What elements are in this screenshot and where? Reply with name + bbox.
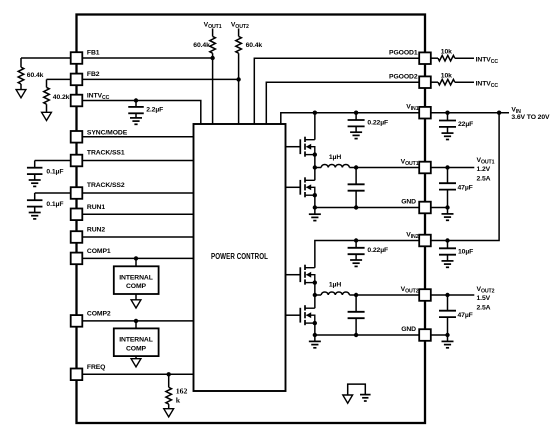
svg-text:k: k: [176, 395, 181, 404]
node ground rail 1 at cap: [354, 205, 358, 209]
capacitor 47uF (VOUT2): [447, 295, 449, 311]
ground earth (2.2uF): [130, 117, 142, 119]
wire FREQ: [71, 373, 194, 375]
svg-text:60.4k: 60.4k: [193, 42, 210, 49]
transistor Q3 (top NMOS ch2): [299, 267, 301, 282]
ground earth (0.22uF ch2): [350, 259, 362, 261]
ground signal (tie): [343, 395, 353, 403]
wire VIN2 rail: [315, 241, 420, 268]
svg-text:2.2µF: 2.2µF: [146, 107, 163, 114]
wire Q2 source to ground rail 1: [314, 195, 316, 207]
block INTERNAL COMP 2: [114, 328, 159, 356]
svg-text:1.2V: 1.2V: [477, 166, 491, 173]
node VIN2 at 10uF: [445, 238, 449, 242]
wire Q4 drain to switch node 2: [314, 295, 316, 308]
capacitor 47uF (VOUT1): [447, 168, 449, 184]
wire Q3 source to switch node 2: [314, 283, 316, 295]
svg-text:COMP: COMP: [126, 345, 147, 352]
wire ground rail 1: [315, 207, 420, 209]
svg-text:1µH: 1µH: [329, 154, 341, 161]
wire COMP1: [71, 257, 194, 259]
wire Q2 drain to switch node 1: [314, 168, 316, 181]
pin INTVCC: [71, 95, 83, 107]
capacitor 10uF (VIN2 bypass): [447, 241, 449, 249]
node VIN2 at bypass cap: [354, 238, 358, 242]
ground signal (162k): [164, 409, 174, 417]
inductor 1uH (channel 1): [315, 167, 321, 169]
wire COMP2 to internal comp 2: [135, 321, 137, 329]
svg-text:GND: GND: [401, 326, 416, 333]
capacitor 22uF (VIN input): [447, 113, 449, 121]
wire gate drive Q1: [286, 146, 300, 148]
wire RUN1: [71, 213, 194, 215]
svg-text:10k: 10k: [441, 72, 452, 79]
resistor 60.4k (lower FB1 divider): [20, 58, 22, 67]
pin FB2: [71, 74, 83, 86]
svg-text:0.22µF: 0.22µF: [367, 247, 388, 254]
pin PGOOD2: [419, 76, 431, 88]
pin RUN1: [71, 209, 83, 221]
resistor 60.4k (upper FB1 divider): [210, 36, 216, 53]
pin COMP2: [71, 315, 83, 327]
wire PGOOD2: [266, 82, 419, 124]
node FB2 junction: [236, 77, 240, 81]
ground earth (rail 2): [314, 335, 316, 341]
wire gate drive Q4: [286, 314, 300, 316]
node FB1 junction: [210, 56, 214, 60]
svg-text:FREQ: FREQ: [87, 364, 105, 371]
svg-text:10µF: 10µF: [458, 249, 473, 256]
node GND1 outside: [445, 205, 449, 209]
node ground rail 2 at cap: [354, 333, 358, 337]
capacitor 2.2uF (INTVCC bypass): [135, 101, 137, 107]
pin TRACK/SS1: [71, 155, 83, 167]
block INTERNAL COMP 1: [114, 266, 159, 294]
ground signal (FB2 divider): [42, 112, 52, 120]
svg-text:POWER CONTROL: POWER CONTROL: [211, 252, 268, 261]
capacitor 0.22uF (VIN2 bypass): [355, 241, 357, 248]
pin VIN1: [419, 107, 431, 119]
ground earth (tie): [360, 394, 371, 396]
svg-text:3.6V TO 20V: 3.6V TO 20V: [511, 114, 550, 121]
svg-text:COMP2: COMP2: [87, 310, 111, 317]
ground earth (GND1 outside): [447, 208, 449, 214]
wire SYNC/MODE: [71, 136, 194, 138]
transistor Q2 (bottom NMOS ch1): [299, 180, 301, 195]
node switch node 2: [313, 293, 317, 297]
pin PGOOD1: [419, 52, 431, 64]
wire TRACK/SS2: [35, 192, 194, 194]
svg-text:0.1µF: 0.1µF: [46, 201, 63, 208]
wire FB2: [47, 78, 239, 80]
ground earth (10uF): [442, 260, 454, 262]
wire Q1 source to switch node 1: [314, 155, 316, 168]
capacitor 0.1uF (TRACK/SS2): [34, 193, 36, 200]
svg-text:47µF: 47µF: [458, 184, 473, 191]
svg-text:1.5V: 1.5V: [477, 295, 491, 302]
wire ground tie bracket: [348, 384, 366, 395]
ground earth (0.1uF SS1): [29, 179, 41, 181]
node VOUT1 junction: [354, 165, 358, 169]
svg-text:COMP1: COMP1: [87, 248, 111, 255]
wire internal comp 2 to ground: [135, 356, 137, 359]
ground earth (0.22uF ch1): [350, 131, 362, 133]
transistor Q4 (bottom NMOS ch2): [299, 308, 301, 323]
svg-text:INTERNAL: INTERNAL: [119, 274, 153, 281]
svg-text:RUN1: RUN1: [87, 204, 105, 211]
wire FB1: [21, 57, 213, 59]
pin GND: [419, 329, 431, 341]
capacitor 0.1uF (TRACK/SS1): [34, 161, 36, 168]
svg-text:2.5A: 2.5A: [477, 175, 491, 182]
wire COMP2: [71, 320, 194, 322]
resistor 60.4k (upper FB2 divider): [236, 36, 242, 53]
svg-text:47µF: 47µF: [458, 312, 473, 319]
wire R bottom to FB1 line: [212, 53, 214, 58]
svg-text:1µH: 1µH: [329, 282, 341, 289]
wire gate drive Q2: [286, 186, 300, 188]
wire VOUT1 output: [431, 167, 475, 169]
svg-text:22µF: 22µF: [458, 121, 473, 128]
node ground rail 1 at Q2: [313, 205, 317, 209]
wire GND1 outside: [431, 207, 450, 209]
wire VIN1 rail: [281, 113, 420, 124]
ground earth (GND2 outside): [447, 335, 449, 341]
pin GND: [419, 202, 431, 214]
node FREQ junction: [167, 372, 171, 376]
wire Q1 drain to VIN1: [314, 113, 316, 140]
ground signal (internal comp 2): [131, 359, 141, 367]
capacitor output ch1 (internal): [355, 168, 357, 185]
node ground rail 2 at Q4: [313, 333, 317, 337]
ground signal (internal comp 1): [131, 300, 141, 308]
svg-text:FB2: FB2: [87, 71, 100, 78]
pin VOUT1: [419, 162, 431, 174]
resistor 162k (FREQ set): [168, 374, 170, 387]
node VOUT1 at 47uF: [445, 165, 449, 169]
pin FREQ: [71, 369, 83, 381]
resistor 10k (PGOOD1 pullup): [431, 57, 439, 59]
pin TRACK/SS2: [71, 187, 83, 199]
wire VOUT1 to R top: [212, 29, 214, 37]
node VIN branch to VIN2: [497, 111, 501, 115]
wire INTVCC pin to power control: [82, 101, 201, 125]
IC outer boundary: [77, 15, 426, 424]
POWER CONTROL block U1: [194, 124, 286, 391]
svg-text:60.4k: 60.4k: [27, 72, 44, 79]
wire VOUT1 to pin: [356, 167, 419, 169]
wire GND2 outside: [431, 334, 450, 336]
transistor Q1 (top NMOS ch1): [299, 139, 301, 154]
wire FB1 junction down to power control: [212, 58, 214, 124]
ground signal (FB1 divider): [16, 90, 26, 98]
wire Q4 source to ground rail 2: [314, 323, 316, 335]
wire ground rail 2: [315, 334, 420, 336]
node COMP1 junction: [134, 256, 138, 260]
wire COMP1 to internal comp 1: [135, 258, 137, 266]
svg-text:2.5A: 2.5A: [477, 304, 491, 311]
pin SYNC/MODE: [71, 131, 83, 143]
svg-text:PGOOD1: PGOOD1: [389, 50, 418, 57]
svg-text:40.2k: 40.2k: [53, 94, 70, 101]
wire VOUT2 output: [431, 294, 475, 296]
wire FB2 junction down to power control: [238, 79, 240, 124]
wire internal comp 1 to ground: [135, 294, 137, 300]
svg-text:TRACK/SS2: TRACK/SS2: [87, 182, 125, 189]
pin FB1: [71, 52, 83, 64]
resistor 40.2k (lower FB2 divider): [46, 79, 48, 87]
node VIN1 at bypass cap: [354, 111, 358, 115]
wire R bottom to FB2 line: [238, 53, 240, 79]
ground earth (rail 1): [314, 208, 316, 214]
wire TRACK/SS1: [35, 160, 194, 162]
ground earth (0.1uF SS2): [29, 212, 41, 214]
node GND2 outside: [445, 333, 449, 337]
node VOUT2 at 47uF: [445, 293, 449, 297]
ground earth (22uF): [442, 132, 454, 134]
svg-text:FB1: FB1: [87, 49, 100, 56]
svg-text:PGOOD2: PGOOD2: [389, 74, 418, 81]
svg-text:GND: GND: [401, 198, 416, 205]
node VIN at 22uF: [445, 111, 449, 115]
wire VIN down to VIN2 rail: [431, 113, 500, 241]
svg-text:0.1µF: 0.1µF: [46, 169, 63, 176]
svg-text:162: 162: [176, 386, 188, 395]
wire VOUT2 to pin: [356, 294, 419, 296]
pin VOUT2: [419, 289, 431, 301]
node INTVCC bypass junction: [134, 98, 138, 102]
svg-text:COMP: COMP: [126, 283, 147, 290]
capacitor 0.22uF (VIN1 bypass): [355, 113, 357, 120]
pin RUN2: [71, 231, 83, 243]
svg-text:SYNC/MODE: SYNC/MODE: [87, 129, 128, 136]
pin VIN2: [419, 235, 431, 247]
wire RUN2: [71, 236, 194, 238]
wire VOUT2 to R top: [238, 29, 240, 37]
wire VIN input: [431, 112, 510, 114]
inductor 1uH (channel 2): [315, 294, 321, 296]
svg-text:10k: 10k: [441, 48, 452, 55]
node VOUT2 junction: [354, 293, 358, 297]
capacitor output ch2 (internal): [355, 295, 357, 312]
node COMP2 junction: [134, 319, 138, 323]
wire gate drive Q3: [286, 274, 300, 276]
pin COMP1: [71, 253, 83, 265]
svg-text:INTERNAL: INTERNAL: [119, 337, 153, 344]
svg-text:60.4k: 60.4k: [246, 42, 263, 49]
svg-text:TRACK/SS1: TRACK/SS1: [87, 150, 125, 157]
node switch node 1: [313, 165, 317, 169]
resistor 10k (PGOOD2 pullup): [431, 81, 439, 83]
svg-text:RUN2: RUN2: [87, 227, 105, 234]
svg-text:0.22µF: 0.22µF: [367, 119, 388, 126]
wire PGOOD1: [254, 58, 419, 124]
node VIN1 at Q1 drain: [313, 111, 317, 115]
